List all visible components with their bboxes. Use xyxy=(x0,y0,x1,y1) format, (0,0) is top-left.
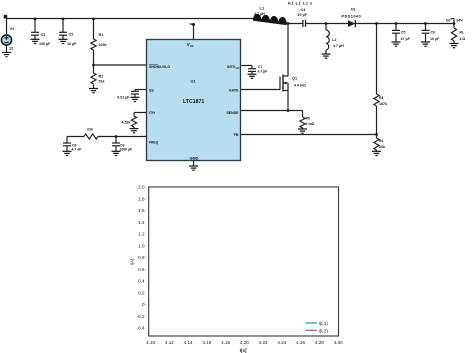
svg-text:LTC1871: LTC1871 xyxy=(183,99,204,105)
svg-text:D1: D1 xyxy=(351,8,356,12)
svg-text:I(L2): I(L2) xyxy=(319,328,329,333)
svg-text:I(A): I(A) xyxy=(130,258,135,265)
svg-text:47 µF: 47 µF xyxy=(401,37,411,41)
svg-text:-0.4: -0.4 xyxy=(137,326,145,331)
svg-text:4.30: 4.30 xyxy=(334,340,343,345)
svg-text:-0.2: -0.2 xyxy=(137,314,145,319)
svg-text:100 µF: 100 µF xyxy=(39,42,51,46)
svg-text:GATE: GATE xyxy=(229,89,239,93)
svg-text:4.16: 4.16 xyxy=(202,340,211,345)
svg-text:I(L1): I(L1) xyxy=(319,321,329,326)
svg-text:SHDN/UVLO: SHDN/UVLO xyxy=(149,65,170,69)
svg-text:C5: C5 xyxy=(401,30,405,34)
svg-text:1.6: 1.6 xyxy=(138,208,145,213)
svg-text:SS: SS xyxy=(149,89,154,93)
svg-text:2.0: 2.0 xyxy=(138,185,145,190)
svg-text:C7: C7 xyxy=(258,65,262,69)
svg-text:1.0: 1.0 xyxy=(138,243,145,248)
svg-text:4.22: 4.22 xyxy=(259,340,268,345)
svg-text:1.4: 1.4 xyxy=(138,220,145,225)
svg-text:R2: R2 xyxy=(99,75,104,79)
svg-text:PDS1040: PDS1040 xyxy=(342,13,362,18)
svg-text:0: 0 xyxy=(142,302,145,307)
svg-text:R4: R4 xyxy=(379,139,383,143)
svg-text:K1 L1 L2 1: K1 L1 L2 1 xyxy=(288,1,313,6)
svg-text:10 µF: 10 µF xyxy=(430,37,440,41)
svg-text:4.7 µH: 4.7 µH xyxy=(254,12,265,16)
svg-text:0.4: 0.4 xyxy=(138,279,145,284)
svg-text:SENSE: SENSE xyxy=(226,111,239,115)
svg-text:L1: L1 xyxy=(260,6,265,11)
svg-text:1000 pF: 1000 pF xyxy=(120,148,133,152)
svg-text:4.7 µH: 4.7 µH xyxy=(333,44,344,48)
svg-text:C2: C2 xyxy=(69,32,74,36)
svg-text:4.14: 4.14 xyxy=(184,340,193,345)
svg-text:14V: 14V xyxy=(456,18,463,22)
svg-text:L2: L2 xyxy=(332,38,336,42)
svg-text:V1: V1 xyxy=(10,27,15,31)
svg-text:RL: RL xyxy=(460,30,465,34)
svg-text:GND: GND xyxy=(190,155,199,160)
svg-text:C6: C6 xyxy=(431,30,435,34)
svg-text:220k: 220k xyxy=(99,43,107,47)
svg-text:4 Ω: 4 Ω xyxy=(460,37,466,41)
svg-text:CC: CC xyxy=(236,66,240,70)
svg-text:10 µF: 10 µF xyxy=(298,13,308,17)
svg-text:4.12: 4.12 xyxy=(165,340,174,345)
svg-text:t[s]: t[s] xyxy=(240,348,247,353)
svg-text:51k: 51k xyxy=(99,80,105,84)
svg-text:20k: 20k xyxy=(379,145,385,149)
svg-text:ITH: ITH xyxy=(149,111,155,115)
svg-text:IN: IN xyxy=(190,44,193,48)
svg-text:R1: R1 xyxy=(99,33,104,37)
svg-text:12: 12 xyxy=(9,47,13,51)
svg-text:187k: 187k xyxy=(379,102,387,106)
svg-text:FREQ: FREQ xyxy=(149,140,159,144)
svg-text:U1: U1 xyxy=(191,79,197,84)
svg-text:4.4 mΩ: 4.4 mΩ xyxy=(294,83,306,87)
svg-text:1.2: 1.2 xyxy=(138,232,145,237)
svg-text:4.20: 4.20 xyxy=(240,340,249,345)
svg-text:4 mΩ: 4 mΩ xyxy=(306,122,315,126)
svg-text:0.6: 0.6 xyxy=(138,267,145,272)
svg-text:10 µF: 10 µF xyxy=(67,42,77,46)
svg-text:C1: C1 xyxy=(41,33,46,37)
svg-text:22k: 22k xyxy=(87,128,93,132)
svg-text:4.7 nF: 4.7 nF xyxy=(72,148,82,152)
svg-text:R5: R5 xyxy=(306,117,310,121)
svg-text:4.28: 4.28 xyxy=(315,340,324,345)
svg-text:4.53k: 4.53k xyxy=(122,121,131,125)
svg-text:1.8: 1.8 xyxy=(138,196,145,201)
svg-text:4.7 µF: 4.7 µF xyxy=(258,70,268,74)
svg-text:4.24: 4.24 xyxy=(277,340,286,345)
svg-text:0.01 µF: 0.01 µF xyxy=(117,96,130,100)
svg-text:0.8: 0.8 xyxy=(138,255,145,260)
svg-text:V: V xyxy=(187,42,190,47)
svg-text:FB: FB xyxy=(234,133,239,137)
svg-text:R3: R3 xyxy=(379,96,383,100)
svg-text:4.10: 4.10 xyxy=(146,340,155,345)
svg-text:4.18: 4.18 xyxy=(221,340,230,345)
svg-text:4.26: 4.26 xyxy=(296,340,305,345)
svg-text:Vo: Vo xyxy=(446,18,451,22)
svg-text:0.2: 0.2 xyxy=(138,290,145,295)
svg-text:Q1: Q1 xyxy=(292,76,297,80)
